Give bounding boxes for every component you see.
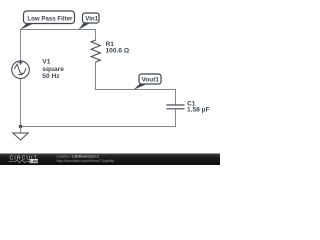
svg-text:100.6 Ω: 100.6 Ω — [106, 48, 130, 55]
flag node Vin1 — [79, 13, 100, 30]
resistor R1 — [91, 29, 100, 90]
junction ground node — [19, 125, 23, 129]
svg-text:Low Pass Filter: Low Pass Filter — [27, 15, 73, 22]
wire middle from R1 to Vout node — [95, 89, 176, 91]
ground — [13, 127, 28, 141]
label R1 value — [106, 41, 130, 55]
flag Low Pass Filter — [20, 11, 75, 30]
svg-text:Vin1: Vin1 — [85, 16, 99, 23]
label V1 value — [42, 59, 64, 81]
label C1 value — [187, 100, 210, 113]
svg-text:Vout1: Vout1 — [142, 77, 160, 84]
wire left rail V1 top — [20, 29, 22, 61]
wire right rail C1 bottom — [175, 109, 177, 127]
footer bar — [0, 154, 220, 166]
voltage source V1 — [12, 61, 30, 79]
svg-text:http://circuitlab.com/c/thmu27: http://circuitlab.com/c/thmu27pgddfy — [57, 159, 115, 163]
wire right rail C1 top — [175, 89, 177, 105]
svg-text:1.58 µF: 1.58 µF — [187, 106, 210, 113]
svg-text:LAB: LAB — [30, 160, 38, 164]
capacitor C1 — [167, 105, 185, 109]
flag node Vout1 — [134, 74, 162, 90]
svg-text:square: square — [42, 66, 64, 73]
svg-text:50 Hz: 50 Hz — [42, 73, 60, 80]
wire left rail V1 bottom — [20, 78, 22, 127]
wire bottom ground rail — [20, 126, 176, 128]
wire top from node Vin to R1 — [20, 29, 96, 31]
svg-text:V1: V1 — [42, 59, 50, 66]
